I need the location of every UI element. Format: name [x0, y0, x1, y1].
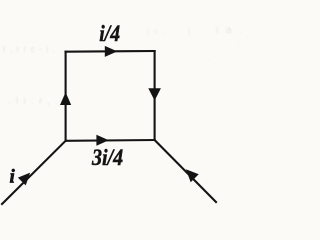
wire bottom side of loop [66, 139, 155, 142]
current arrow i/4 on top wire (points right) [105, 46, 118, 57]
current arrow on output lead (points up-left) [186, 169, 199, 182]
current arrow on left wire (points up) [60, 92, 71, 105]
svg-text:3i/4: 3i/4 [91, 145, 123, 170]
current arrow i on input lead (points up-right) [18, 173, 30, 186]
wire top side of loop [66, 50, 155, 53]
current arrow 3i/4 on bottom wire (points right) [96, 135, 108, 146]
wire right side of loop [154, 51, 156, 140]
current arrow on right wire (points down) [148, 88, 161, 100]
svg-text:i: i [10, 167, 16, 188]
svg-text:i/4: i/4 [99, 21, 120, 46]
wire left side of loop [65, 52, 67, 141]
wire input lead bottom-left [2, 141, 66, 204]
wire output lead bottom-right [155, 140, 216, 202]
